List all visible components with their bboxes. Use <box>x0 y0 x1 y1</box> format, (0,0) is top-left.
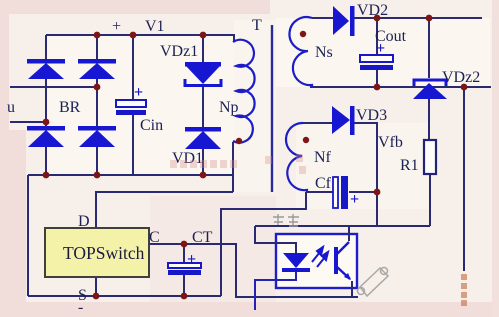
wire: VD3 to Vfb node <box>354 123 377 192</box>
capacitor Cin <box>116 100 146 115</box>
wire: opto collector riser <box>348 226 350 241</box>
node dot Vfb <box>374 189 381 196</box>
node dot top rail at Cin <box>130 32 137 39</box>
svg-text:BR: BR <box>59 99 81 116</box>
wire: bottom primary rail <box>28 174 233 176</box>
node dot bottom rail left <box>43 172 50 179</box>
watermark red column <box>461 274 467 306</box>
wire: bridge left column <box>45 35 47 175</box>
wire: Np bottom riser to D node <box>232 142 234 192</box>
wire: bridge right column <box>96 35 98 175</box>
node dot bridge left mid <box>43 119 50 126</box>
watermark gray sketch <box>358 268 389 297</box>
node dot Cout top <box>374 15 381 22</box>
wire: C pin to CT and down <box>149 244 358 297</box>
node dot S rail at CT <box>181 293 188 300</box>
wire: S ground rail <box>28 295 221 297</box>
svg-text:+: + <box>134 84 143 101</box>
svg-text:VDz1: VDz1 <box>160 43 198 60</box>
optocoupler phototransistor <box>334 242 351 280</box>
wire: VDz2 stem upper <box>428 18 430 78</box>
svg-text:Nf: Nf <box>314 149 332 166</box>
wire: R1 bottom stem <box>429 174 431 226</box>
optocoupler U1 box <box>276 234 357 288</box>
svg-text:Np: Np <box>219 99 239 116</box>
wire: Vfb node down to W1 <box>376 192 378 226</box>
optocoupler LED <box>282 253 310 272</box>
wire: CT cap stems <box>183 244 185 296</box>
zener VDz1 <box>185 62 221 86</box>
svg-text:VD3: VD3 <box>356 107 387 124</box>
svg-text:Vfb: Vfb <box>378 134 403 151</box>
wire: Cout stems <box>376 18 378 87</box>
svg-text:CT: CT <box>192 229 213 246</box>
wire: VD2 output rail <box>354 17 482 19</box>
wire: S pin stem <box>95 277 97 296</box>
winding Np <box>233 40 255 143</box>
node dot top rail at bridge right <box>94 32 101 39</box>
node dot bottom rail VD1 <box>200 172 207 179</box>
wire: LED anode feed <box>255 226 296 253</box>
svg-text:TOPSwitch: TOPSwitch <box>63 243 145 263</box>
svg-text:-: - <box>78 299 83 316</box>
svg-text:VD2: VD2 <box>357 2 388 19</box>
svg-text:C: C <box>149 229 160 246</box>
winding Nf <box>286 123 307 192</box>
capacitor Cout <box>360 55 393 70</box>
node dot: Nf phase dot <box>303 137 309 143</box>
wire: top rail V1 <box>46 35 234 42</box>
resistor R1 <box>424 140 436 174</box>
wire: VDz1 VD1 chain stems <box>202 35 204 175</box>
diode VD1 <box>185 127 221 149</box>
node dot output right <box>461 84 468 91</box>
label optocoupler gray <box>273 214 299 226</box>
node dot bridge right mid <box>94 84 101 91</box>
svg-text:u: u <box>7 99 15 116</box>
wire: D node wire <box>96 192 233 228</box>
svg-text:Cin: Cin <box>140 117 163 134</box>
wire: Cin stems <box>132 35 134 175</box>
winding Ns <box>289 17 312 87</box>
transformer core T <box>271 25 273 192</box>
diode VD3 <box>332 106 355 135</box>
svg-text:V1: V1 <box>145 18 165 35</box>
diode BR top-right <box>78 59 116 79</box>
wire: Ns top to VD2 <box>312 17 333 19</box>
svg-text:Ns: Ns <box>315 44 333 61</box>
svg-text:Cf: Cf <box>315 175 332 192</box>
svg-text:Cout: Cout <box>375 28 407 45</box>
diode BR top-left <box>27 59 65 79</box>
capacitor Cf <box>333 176 348 209</box>
svg-text:VDz2: VDz2 <box>442 69 480 86</box>
diode BR bottom-right <box>78 126 116 147</box>
wire: AC input lower <box>10 121 46 123</box>
svg-text:D: D <box>78 213 90 230</box>
node dot: Ns phase dot <box>300 31 306 37</box>
node dot bottom rail right col <box>94 172 101 179</box>
node dot VDz2 top <box>426 15 433 22</box>
TOPSwitch U2 box <box>45 228 149 277</box>
node dot S rail at S pin <box>93 293 100 300</box>
svg-text:+: + <box>112 18 121 35</box>
wire: Nf top to VD3 <box>302 122 332 124</box>
wire: opto emitter drop <box>351 281 353 297</box>
node dot: Np phase dot <box>236 138 242 144</box>
svg-text:R1: R1 <box>400 157 419 174</box>
wire: Nf return riser and run <box>221 192 306 296</box>
wire: LED cathode return <box>255 272 296 310</box>
wire: Cf left lead <box>306 191 333 193</box>
diode BR bottom-left <box>27 126 65 147</box>
wire: left rail <box>27 175 29 296</box>
svg-text:T: T <box>252 17 262 34</box>
svg-text:+: + <box>187 251 196 268</box>
node dot CT top <box>181 241 188 248</box>
watermark red text row <box>170 154 306 174</box>
capacitor CT <box>168 263 201 275</box>
diode VD2 <box>333 6 355 36</box>
wire: AC input upper <box>10 86 97 88</box>
node dot top rail at VDz1 <box>200 32 207 39</box>
wire: right output drop <box>463 87 465 271</box>
svg-text:+: + <box>350 191 359 208</box>
node dot Cout bottom <box>374 84 381 91</box>
wire: W1 feedback bus <box>255 225 430 227</box>
wire: output return rail <box>310 86 491 88</box>
optocoupler light arrows <box>312 247 328 267</box>
wire: Cf right lead <box>349 191 377 193</box>
zener VDz2 <box>413 80 447 99</box>
wire: VDz2 to R1 stem <box>428 98 430 140</box>
